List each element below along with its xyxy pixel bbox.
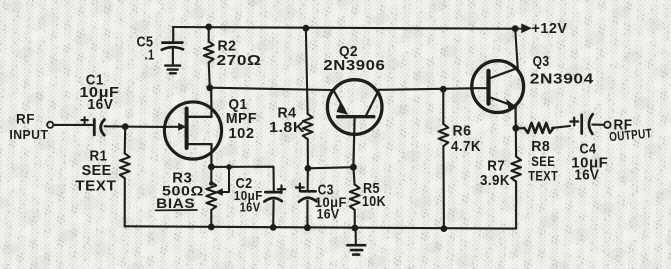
plus sign of C3 [296,184,304,192]
svg-text:10K: 10K [362,193,386,210]
junction dot Q1 source / R3 [208,164,215,171]
svg-text:R6: R6 [453,122,472,139]
resistor R1 [120,127,130,227]
ground symbol main [348,228,366,255]
resistor R7 [511,128,521,228]
capacitor C4 [582,114,593,134]
arrow to +12V supply [518,25,530,32]
capacitor C5 [162,43,183,66]
label BIAS underlined [156,195,198,211]
wire +12V top rail [173,27,518,29]
svg-text:SEE: SEE [531,153,555,169]
svg-text:RF: RF [16,110,35,126]
resistor R2 [204,27,214,88]
svg-text:INPUT: INPUT [9,127,48,142]
svg-text:TEXT: TEXT [75,178,116,195]
capacitor C1 [94,119,104,135]
junction dot rail / C2 [270,224,277,231]
plus sign of C4 [570,118,578,126]
svg-text:3.9K: 3.9K [480,172,510,189]
junction dot gate node [122,123,129,130]
svg-text:+12V: +12V [532,21,568,37]
wire C3 node to R5 node [308,167,354,168]
svg-text:2N3904: 2N3904 [530,70,594,87]
wire C4 to output terminal [592,124,604,126]
wire ground bottom rail [125,226,516,228]
svg-text:16V: 16V [88,96,114,113]
ground symbol at C5 [165,66,180,74]
junction dot R6 top [440,86,447,93]
resistor R3 bias potentiometer [206,164,232,227]
terminal RF input [47,122,53,128]
junction dot R4 C3 node [305,165,312,172]
wire C5 to rail [172,27,174,42]
wire C1 to gate node [105,125,126,127]
transistor Q3 2N3904 NPN [472,61,524,129]
junction dot rail / C3 [304,224,311,231]
resistor R4 [303,28,313,168]
wire input terminal to C1 [54,124,94,126]
resistor R6 [439,89,449,229]
svg-text:SEE: SEE [82,162,112,179]
svg-text:1.8K: 1.8K [269,119,305,136]
plus sign of C2 [278,186,285,193]
svg-text:270Ω: 270Ω [217,52,262,69]
capacitor C2 [264,192,282,227]
wire source node to C2 [211,167,273,191]
junction dot Q1 drain / R2 [206,84,213,91]
svg-text:16V: 16V [240,200,261,215]
svg-text:TEXT: TEXT [528,167,558,183]
svg-text:2N3906: 2N3906 [323,57,385,74]
junction dot top rail / Q3 collector [512,25,519,32]
svg-text:16V: 16V [317,206,340,222]
junction dot Q3 emitter / R7 / R8 [512,125,519,132]
junction dot rail / R6 [441,225,448,232]
junction dot rail / R5 ground [351,225,358,232]
junction dot top rail / R4 [303,25,310,32]
wire Q1 drain to Q2 emitter [210,88,332,90]
wire Q2 collector to Q3 base [379,88,473,90]
junction dot rail / R3 [208,224,215,231]
wire gate node to Q1 gate [125,126,166,128]
svg-text:.1: .1 [145,47,155,64]
junction dot top rail / R2 [205,24,212,31]
transistor Q2 2N3906 PNP [327,80,382,168]
resistor R8 [516,123,570,133]
terminal RF output [604,122,610,128]
transistor Q1 MPF102 JFET [164,89,221,167]
junction dot Q2 base / R5 [350,164,357,171]
resistor R5 [350,167,360,228]
svg-text:Q3: Q3 [533,53,550,70]
svg-text:BIAS: BIAS [156,195,195,211]
wire Q3 collector to +12V rail [515,29,518,68]
svg-text:16V: 16V [574,167,599,184]
plus sign of C1 [81,117,87,123]
svg-text:102: 102 [229,125,255,142]
svg-text:4.7K: 4.7K [451,138,481,155]
capacitor C3 [299,168,317,228]
